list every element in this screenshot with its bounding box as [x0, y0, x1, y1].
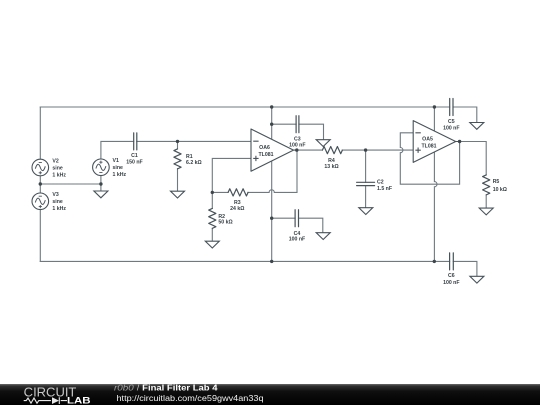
svg-text:24 kΩ: 24 kΩ	[230, 206, 244, 212]
svg-text:sine: sine	[113, 165, 123, 171]
ground below R1	[171, 191, 185, 198]
footer bar	[0, 384, 540, 405]
wire V1 top	[101, 141, 134, 159]
ground below R5	[479, 208, 493, 215]
svg-text:C3: C3	[294, 137, 301, 143]
svg-text:6.2 kΩ: 6.2 kΩ	[186, 160, 202, 166]
svg-text:13 kΩ: 13 kΩ	[324, 164, 338, 170]
wire C5 right stub	[453, 107, 477, 123]
resistor R3	[228, 189, 248, 196]
resistor R4	[322, 147, 342, 154]
svg-text:TL081: TL081	[259, 152, 274, 158]
wire node C vertical	[434, 107, 437, 261]
wire top bus	[40, 106, 449, 108]
wire V2-V1 link	[40, 183, 101, 185]
capacitor C5	[450, 99, 453, 116]
resistor R5	[483, 175, 490, 195]
node bottom-C	[433, 260, 436, 263]
ground C6	[470, 276, 484, 283]
logo resistor-diode line	[24, 397, 67, 404]
node V2 bottom	[39, 182, 42, 185]
wire OA5 out to R5	[460, 142, 487, 209]
ground below V1	[94, 191, 108, 198]
ground C4	[316, 233, 330, 240]
wire R2 leads	[211, 192, 213, 241]
wire bottom bus	[40, 260, 449, 262]
svg-text:C1: C1	[131, 153, 138, 159]
svg-text:100 nF: 100 nF	[443, 280, 459, 286]
wire R1 leads	[177, 141, 179, 191]
op-amp U2 OA5	[413, 121, 459, 163]
ground C3	[316, 140, 330, 147]
svg-text:V1: V1	[113, 158, 119, 164]
node C4 tap	[270, 217, 273, 220]
svg-text:C5: C5	[448, 119, 455, 125]
svg-text:LAB: LAB	[67, 396, 91, 405]
node C2 tap	[364, 148, 367, 151]
svg-text:OA6: OA6	[259, 145, 270, 151]
svg-text:100 nF: 100 nF	[289, 236, 305, 242]
svg-text:1 kHz: 1 kHz	[52, 206, 66, 212]
op-amp U1 OA6	[251, 129, 297, 171]
resistor R2	[209, 208, 216, 228]
node OA6 out	[295, 148, 298, 151]
node V1 bottom	[99, 182, 102, 185]
wire V1 bottom	[100, 176, 102, 191]
capacitor C6	[450, 253, 454, 270]
svg-text:http://circuitlab.com/ce59gwv4: http://circuitlab.com/ce59gwv4an33q	[117, 393, 264, 403]
svg-text:100 nF: 100 nF	[289, 143, 305, 149]
svg-text:C6: C6	[448, 273, 455, 279]
svg-text:R1: R1	[186, 154, 193, 160]
svg-text:Final Filter Lab 4: Final Filter Lab 4	[142, 383, 218, 393]
svg-text:150 nF: 150 nF	[126, 159, 142, 165]
svg-text:V2: V2	[52, 159, 58, 165]
wire C1 to OA6 minus	[137, 140, 251, 142]
svg-text:1.5 nF: 1.5 nF	[377, 186, 392, 192]
node bottom-B	[270, 260, 273, 263]
ground C5	[470, 123, 484, 130]
resistor R1	[174, 149, 181, 169]
wire C6 right stub	[453, 261, 477, 276]
svg-text:C2: C2	[377, 179, 384, 185]
svg-text:1 kHz: 1 kHz	[113, 172, 127, 178]
wire OA6 plus input	[212, 158, 251, 192]
svg-text:50 kΩ: 50 kΩ	[218, 220, 232, 226]
node R3 R2	[211, 191, 214, 194]
svg-text:sine: sine	[52, 166, 62, 172]
capacitor C3	[296, 116, 299, 133]
node top-B	[270, 105, 273, 108]
ground below R2	[205, 241, 219, 248]
wire C4 branch	[272, 218, 323, 233]
capacitor C1	[134, 133, 137, 150]
svg-text:1 kHz: 1 kHz	[52, 173, 66, 179]
node C3 tap	[270, 123, 273, 126]
wire R3 line with hop	[212, 150, 297, 192]
capacitor C2	[357, 182, 375, 185]
source V1	[93, 159, 110, 176]
capacitor C4	[295, 210, 298, 227]
svg-text:R5: R5	[493, 179, 500, 185]
wire C3 branch	[272, 124, 324, 140]
wire OA6 out to R4 to OA5 plus with hop	[297, 149, 413, 151]
svg-text:100 nF: 100 nF	[443, 125, 459, 131]
svg-text:10 kΩ: 10 kΩ	[493, 187, 507, 193]
svg-text:V3: V3	[52, 192, 58, 198]
wire node B vertical	[271, 107, 273, 261]
node OA5 out	[458, 140, 461, 143]
node R1 top	[176, 140, 179, 143]
svg-text:OA5: OA5	[422, 136, 433, 142]
svg-text:sine: sine	[52, 199, 62, 205]
wire C2 leads	[365, 150, 367, 208]
node top-C	[433, 105, 436, 108]
source V2	[32, 159, 49, 176]
source V3	[32, 193, 49, 210]
svg-text:r0b0: r0b0	[114, 383, 134, 393]
wire left vertical	[39, 107, 41, 261]
wire OA5 feedback with hop	[400, 133, 459, 184]
ground C2	[359, 208, 373, 215]
svg-text:TL081: TL081	[422, 144, 437, 150]
